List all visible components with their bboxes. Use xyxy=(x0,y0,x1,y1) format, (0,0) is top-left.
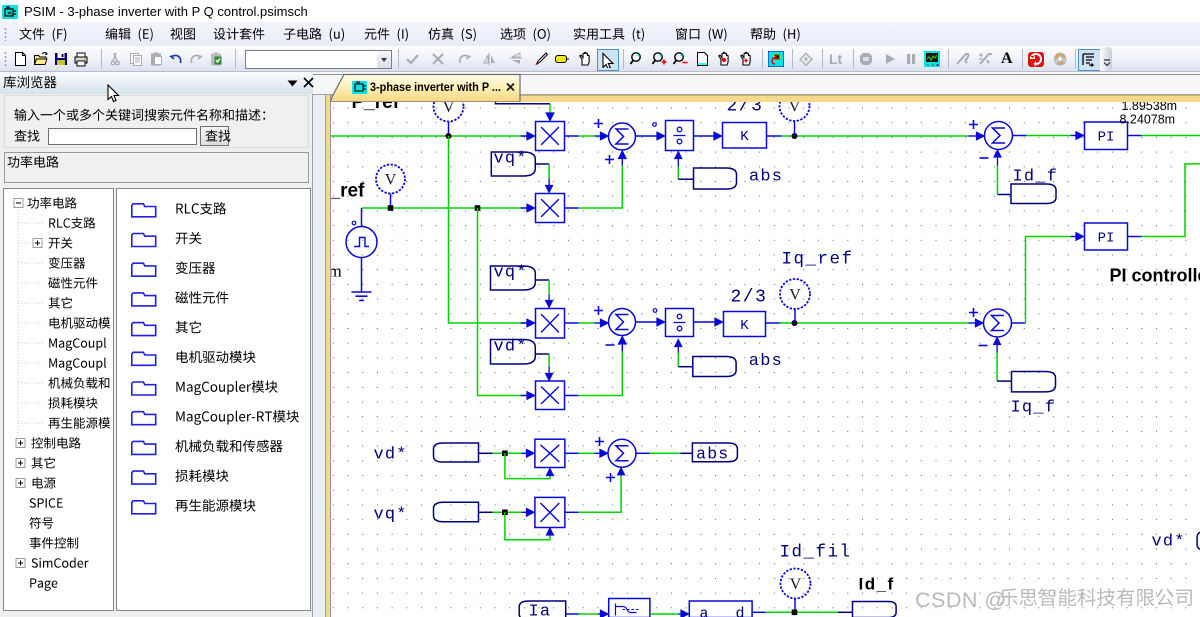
wire label vq*B to M3 top xyxy=(535,279,549,281)
svg-text:vq*: vq* xyxy=(493,149,527,168)
wire arrow into M3 xyxy=(520,322,533,324)
M6 out up to sum5 xyxy=(564,511,578,513)
sum4 out to PI2 xyxy=(1011,322,1025,324)
svg-text:V: V xyxy=(788,102,800,116)
label vq*in xyxy=(433,502,478,522)
multiplier M2 xyxy=(535,193,564,222)
wire arrow into M1 xyxy=(520,135,533,137)
svg-text:vq*: vq* xyxy=(493,263,527,282)
svg-text:PI: PI xyxy=(1097,230,1114,246)
junction xyxy=(791,609,797,615)
label abs1 xyxy=(693,168,736,189)
svg-text:PI: PI xyxy=(1097,129,1114,145)
wire vq* into M6 xyxy=(478,511,492,513)
divider2 bottom input xyxy=(677,352,679,366)
label Id_f2 xyxy=(852,601,896,617)
menu bar xyxy=(0,22,1200,46)
loop to M5 bottom xyxy=(504,453,549,478)
square wave source VSQ xyxy=(360,208,362,227)
junction xyxy=(502,450,508,456)
wire label vd* to M4 top xyxy=(535,353,549,355)
sum3 bottom input from Id_f xyxy=(996,165,998,194)
M2 out up to sum1 xyxy=(564,207,578,209)
svg-text:P_ref: P_ref xyxy=(351,102,399,113)
svg-text:8.24078m: 8.24078m xyxy=(1119,112,1175,126)
voltage probe V3 xyxy=(779,91,809,121)
wire Ia to filter xyxy=(565,613,578,615)
schematic window gold frame xyxy=(325,95,1200,102)
svg-text:abs: abs xyxy=(696,444,729,463)
sum1 to divider xyxy=(635,135,663,137)
M1 to sum1 xyxy=(564,135,578,137)
K1 out xyxy=(766,135,781,137)
wire label vq*A to M2 top xyxy=(535,163,549,165)
svg-text:vd*: vd* xyxy=(373,445,407,464)
ground xyxy=(351,292,371,300)
abc-dq block xyxy=(689,601,752,617)
svg-text:m: m xyxy=(331,261,342,280)
title bar xyxy=(0,0,1200,22)
toolbar xyxy=(0,46,1200,72)
label Iq_f xyxy=(1011,371,1055,391)
svg-text:d: d xyxy=(735,605,744,617)
label Id_f xyxy=(1011,184,1056,204)
voltage probe V5 xyxy=(780,568,810,598)
label abs2 xyxy=(692,356,735,376)
divider D2 xyxy=(665,308,693,336)
wire filter to abc-dq xyxy=(649,613,678,615)
V4 stem xyxy=(794,309,796,323)
svg-text:K: K xyxy=(740,317,749,333)
svg-text:3-phase inverter with P ...: 3-phase inverter with P ... xyxy=(370,80,501,94)
block K2 xyxy=(723,311,765,336)
voltage probe V4 xyxy=(780,279,810,309)
loop to M6 bottom xyxy=(504,512,549,539)
svg-text:abs: abs xyxy=(749,167,783,186)
M4 out up to sum2 xyxy=(564,394,578,396)
PI2 out xyxy=(1127,235,1141,237)
label Ia xyxy=(519,601,566,617)
svg-text:1.89538m: 1.89538m xyxy=(1121,102,1177,113)
divider D1 xyxy=(665,120,693,150)
sum3 to PI1 xyxy=(1012,134,1026,136)
V5 stem xyxy=(794,598,796,612)
svg-text:a: a xyxy=(699,605,708,617)
into sum4 xyxy=(966,322,968,324)
summer S1 xyxy=(608,123,635,150)
label vq*B xyxy=(490,266,535,290)
V2 stem xyxy=(389,193,391,208)
svg-text:V: V xyxy=(789,286,801,303)
label vq*A xyxy=(491,152,535,176)
sum5 out to abs xyxy=(636,452,650,454)
long vertical from junction 448 xyxy=(448,136,533,323)
multiplier M5 xyxy=(534,439,564,467)
summer S2 xyxy=(608,308,635,335)
svg-text:PI controlle: PI controlle xyxy=(1109,265,1200,285)
component list xyxy=(116,188,310,611)
document tab xyxy=(330,73,525,102)
mouse cursor xyxy=(107,84,121,104)
svg-text:V: V xyxy=(789,576,801,593)
label vd* xyxy=(490,339,535,364)
svg-text:Iq_f: Iq_f xyxy=(1010,398,1056,417)
component tree xyxy=(3,188,114,611)
into sum3 xyxy=(966,135,968,137)
block PI1 xyxy=(1084,122,1127,150)
svg-text:V: V xyxy=(442,102,454,116)
svg-text:vd*: vd* xyxy=(1151,532,1185,551)
divider2 to K2 xyxy=(693,321,721,323)
grid dots xyxy=(331,102,1200,617)
PI1 out xyxy=(1127,134,1141,136)
junction xyxy=(791,133,797,139)
label vd*br xyxy=(1197,531,1200,551)
sum2 to divider2 xyxy=(635,321,663,323)
svg-text:vd*: vd* xyxy=(493,337,527,356)
clipped label box top xyxy=(495,102,535,104)
summer S4 xyxy=(983,309,1011,337)
summer S3 xyxy=(984,121,1012,149)
watermark xyxy=(915,588,1007,613)
block K1 xyxy=(722,122,766,148)
long vertical from junction 477 xyxy=(477,208,533,396)
voltage probe V2 xyxy=(376,164,405,193)
svg-text:abs: abs xyxy=(748,352,782,371)
svg-text:_ref: _ref xyxy=(331,180,365,201)
mdi background xyxy=(313,72,1200,617)
svg-text:K: K xyxy=(740,129,749,145)
voltage probe V1 xyxy=(433,91,463,121)
junction xyxy=(502,509,508,515)
svg-text:Ia: Ia xyxy=(528,602,551,617)
V1 stem xyxy=(447,121,449,136)
wire W1 xyxy=(331,135,534,137)
V3 stem xyxy=(793,121,795,136)
wire into M1 top xyxy=(549,103,551,119)
sum4 bottom input from Iq_f xyxy=(996,352,998,381)
multiplier M3 xyxy=(535,308,564,338)
block PI2 xyxy=(1084,223,1127,250)
svg-text:Id_fil: Id_fil xyxy=(779,542,851,562)
svg-text:Id_f: Id_f xyxy=(1012,167,1058,186)
multiplier M6 xyxy=(534,497,564,527)
multiplier M1 xyxy=(535,121,564,150)
svg-text:2/3: 2/3 xyxy=(730,287,767,307)
svg-text:V: V xyxy=(384,171,396,188)
wire W2 xyxy=(361,207,533,209)
label abs3 xyxy=(692,443,737,462)
summer S5 xyxy=(608,439,636,467)
divider to K1 xyxy=(693,135,720,137)
wire vd* into M5 xyxy=(478,452,492,454)
svg-text:2/3: 2/3 xyxy=(726,102,763,117)
svg-text:Id_f: Id_f xyxy=(858,574,894,593)
junction xyxy=(474,205,480,211)
svg-text:Iq_ref: Iq_ref xyxy=(781,249,853,269)
multiplier M4 xyxy=(535,381,564,410)
wire arrow into M2... xyxy=(520,207,533,209)
wire abc-dq to Id_f label xyxy=(752,611,765,613)
K2 out xyxy=(765,322,779,324)
M5 to sum5 xyxy=(564,452,578,454)
junction xyxy=(387,205,393,211)
M3 to sum2 xyxy=(564,322,578,324)
filter block xyxy=(608,598,649,617)
wire arrow into M4 xyxy=(520,394,533,396)
junction xyxy=(791,320,797,326)
library browser panel xyxy=(0,72,313,617)
svg-text:vq*: vq* xyxy=(373,505,407,524)
divider1 bottom input xyxy=(677,166,679,179)
junction xyxy=(445,133,451,139)
label vd*in xyxy=(433,443,478,462)
